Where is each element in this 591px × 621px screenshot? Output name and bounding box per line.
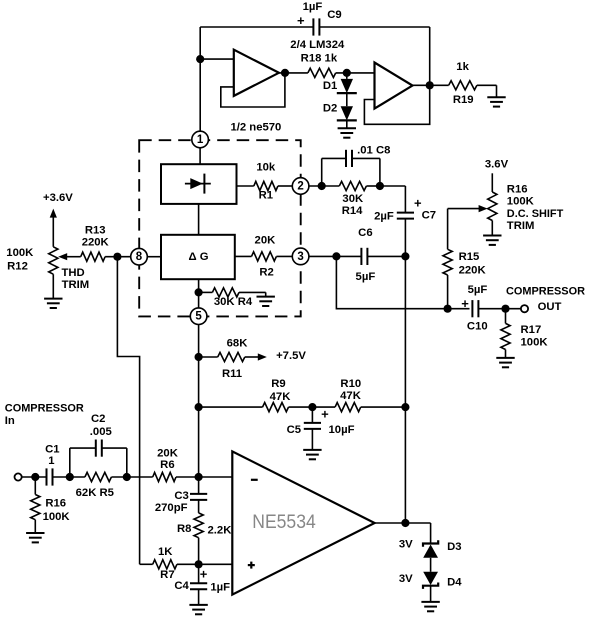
svg-text:8: 8: [136, 251, 143, 263]
wire: delta-G bottom to pin 5: [198, 279, 200, 308]
wire: R7 to plus node: [140, 563, 153, 565]
wire: wiper left to R15 riser: [448, 208, 480, 210]
svg-text:+: +: [297, 13, 305, 28]
svg-text:1k: 1k: [456, 61, 469, 73]
svg-text:C1: C1: [45, 444, 59, 456]
svg-text:100K: 100K: [43, 511, 71, 523]
svg-text:C4: C4: [174, 580, 189, 592]
wire: C8 loop left riser: [321, 158, 323, 186]
junction: U1a output node: [281, 69, 289, 77]
wire: output node to R17: [505, 309, 507, 324]
wire: C6 to main vertical bus: [367, 255, 405, 257]
wire: R4 to ground: [239, 291, 266, 293]
svg-text:1µF: 1µF: [303, 1, 323, 13]
capacitor C8 .01: [345, 150, 347, 167]
svg-text:C7: C7: [422, 209, 436, 221]
junction: R11 node: [195, 353, 203, 361]
wire: pin 3 to C6: [309, 255, 362, 257]
wire: C1 to R5: [53, 476, 85, 478]
op-amp U1b (1/4 LM324): [375, 63, 413, 109]
junction: R15 output node: [444, 305, 452, 313]
svg-text:D4: D4: [447, 577, 462, 589]
svg-text:2.2K: 2.2K: [208, 525, 233, 537]
ground at input R16: [26, 532, 44, 534]
wire: top rail left of C9: [200, 26, 314, 28]
wiper arrow of R12: [58, 253, 67, 260]
wire: link rectifier box to delta-G box: [198, 204, 200, 235]
svg-text:+: +: [461, 296, 469, 311]
svg-text:R18 1k: R18 1k: [301, 52, 338, 64]
wire: R13 to pin 8: [105, 256, 131, 258]
wire: node down to D1: [346, 73, 348, 79]
wire: main vertical bus C6 node down to NE5534 output: [404, 256, 406, 523]
terminal: COMPRESSOR In: [15, 473, 22, 480]
wire: C10 to output terminal: [478, 308, 521, 310]
potentiometer R12 100K body: [49, 247, 58, 274]
wire: C8 loop top right: [352, 157, 380, 159]
junction: C6 right / bus node: [401, 252, 409, 260]
wire: U1a non-inverting input from pin1 node: [200, 58, 234, 60]
wire: C2 loop top right: [102, 447, 127, 449]
junction: output bus node: [401, 519, 409, 527]
junction: input shunt node: [31, 473, 39, 481]
pin 3: [292, 248, 309, 265]
svg-text:20K: 20K: [255, 235, 277, 247]
svg-text:C3: C3: [174, 490, 188, 502]
svg-text:2: 2: [297, 181, 303, 193]
wire: R14 to corner node: [366, 185, 380, 187]
svg-text:R8: R8: [177, 523, 191, 535]
wire: top rail drop to U1b output: [429, 27, 431, 85]
wire: output corner down to D3: [430, 523, 432, 544]
svg-text:R12: R12: [7, 261, 28, 273]
svg-text:OUT: OUT: [538, 301, 562, 313]
svg-text:COMPRESSOR: COMPRESSOR: [506, 285, 585, 297]
svg-text:R9: R9: [271, 378, 285, 390]
svg-text:5µF: 5µF: [468, 284, 488, 296]
svg-text:+: +: [414, 196, 422, 211]
wire: input terminal to C1: [22, 476, 47, 478]
wire: R1 to pin 2: [278, 185, 292, 187]
wire: D4 to ground: [430, 586, 432, 602]
wire: R12 bottom to ground: [52, 274, 54, 298]
svg-text:3.6V: 3.6V: [485, 158, 509, 170]
svg-text:100K: 100K: [6, 247, 34, 259]
svg-text:5µF: 5µF: [356, 271, 376, 283]
wire: R9 to C5 node: [289, 406, 336, 408]
rectifier box of NE570: [161, 164, 237, 204]
wire: input node down to R16: [34, 477, 36, 495]
wire: R11 to +7.5V arrow: [245, 356, 259, 358]
ground at R17: [496, 357, 514, 359]
wire: node to R11: [199, 356, 218, 358]
ground at R16 pot: [483, 235, 501, 237]
junction: C2 left node: [66, 473, 74, 481]
ground at C5: [303, 449, 321, 451]
zener diode D4 3V: [423, 572, 438, 585]
svg-text:C5: C5: [287, 424, 301, 436]
wire: C2 loop left riser: [69, 448, 71, 477]
svg-text:68K: 68K: [227, 337, 249, 349]
svg-text:+7.5V: +7.5V: [276, 350, 306, 362]
junction: pin2 net left node: [318, 182, 326, 190]
wiper arrow of R16 pot: [479, 205, 488, 212]
junction: THD trim node: [113, 253, 121, 261]
resistor R8 2.2K: [194, 513, 203, 538]
resistor R13 220K: [81, 252, 105, 261]
svg-text:1: 1: [197, 134, 204, 146]
svg-text:R6: R6: [160, 459, 174, 471]
wire: pin1 stub into rectifier box: [199, 148, 201, 164]
capacitor C7 2uF: [397, 212, 414, 214]
svg-text:R19: R19: [453, 94, 474, 106]
ground below D2: [338, 127, 356, 129]
pin 1: [192, 131, 209, 148]
resistor R19 1k: [449, 81, 477, 90]
svg-text:3V: 3V: [399, 573, 413, 585]
svg-text:R1: R1: [259, 189, 273, 201]
svg-text:47K: 47K: [270, 391, 292, 403]
pin 8: [131, 248, 148, 265]
wire: R16 to ground: [34, 520, 36, 533]
wire: pin1 vertical up to top feedback rail: [199, 27, 201, 131]
label plus input sign: [248, 564, 255, 566]
svg-text:NE5534: NE5534: [252, 511, 316, 533]
junction: C2 right node: [123, 473, 131, 481]
resistor R9 47K: [263, 403, 289, 412]
wire: D3 to D4: [430, 558, 432, 572]
capacitor C3 270pF: [190, 493, 207, 495]
wire: delta-G box to R2: [235, 255, 252, 257]
svg-text:D3: D3: [447, 541, 461, 553]
pin 5: [190, 308, 207, 325]
wire: U1b feedback loop output to inverting input: [364, 85, 429, 124]
resistor R5 62K: [85, 472, 112, 481]
arrow: +7.5V: [258, 353, 267, 360]
wire: C3 to R8: [198, 500, 200, 513]
rectifier diode symbol inside box: [185, 183, 211, 185]
wire: node to R9: [199, 406, 263, 408]
svg-text:62K R5: 62K R5: [76, 487, 114, 499]
wire: C5 to ground: [311, 429, 313, 450]
wire: pin 8 to delta-G box: [147, 256, 161, 258]
svg-text:R15: R15: [459, 251, 480, 263]
resistor R1 10k: [254, 181, 278, 190]
junction: R4 node: [195, 288, 203, 296]
svg-text:2/4 LM324: 2/4 LM324: [290, 39, 345, 51]
resistor R6 20K: [153, 472, 176, 481]
resistor R2 20K: [252, 252, 277, 261]
junction: diode clamp node: [343, 69, 351, 77]
terminal: COMPRESSOR OUT: [521, 305, 528, 312]
delta G variable gain box of NE570: [161, 235, 235, 279]
wire: 3.6V to R16 pot: [491, 173, 493, 192]
wire: NE5534 output: [375, 522, 431, 524]
zener diode D3 3V: [423, 540, 438, 546]
wire: R2 to pin 3: [276, 255, 292, 257]
junction: C5 node: [308, 403, 316, 411]
wire: C5 node down to C5: [311, 407, 313, 423]
svg-text:100K: 100K: [521, 336, 549, 348]
wire: C2 loop top left: [70, 447, 96, 449]
resistor R4 30K: [212, 288, 239, 297]
wire: D1 cathode to D2 anode: [346, 93, 348, 106]
wire: corner down to C7: [404, 186, 406, 213]
resistor R15 220K: [443, 249, 452, 275]
diode D1: [341, 79, 353, 93]
junction: op-amp U1a input node: [196, 55, 204, 63]
junction: U1b output node: [426, 81, 434, 89]
wire: U1b output to R19: [413, 84, 449, 86]
wire: U1a output: [279, 72, 308, 74]
arrow: +3.6V supply arrowhead: [50, 209, 57, 218]
wire: top rail right of C9: [319, 26, 429, 28]
wire: THD node down with jog to R7 row: [117, 257, 139, 565]
capacitor C5 10uF: [304, 422, 321, 424]
svg-text:R10: R10: [340, 378, 361, 390]
svg-text:R2: R2: [259, 267, 273, 279]
svg-text:270pF: 270pF: [155, 502, 188, 514]
capacitor C6 5uF: [360, 248, 362, 265]
resistor R10 47K: [335, 403, 361, 412]
svg-text:TRIM: TRIM: [507, 220, 535, 232]
pin 2: [292, 178, 309, 195]
wire: C6 node down to output row: [336, 256, 469, 308]
wire: C2 loop right riser: [126, 448, 128, 477]
resistor R7 1K: [153, 560, 177, 569]
capacitor C2 .005: [95, 440, 97, 457]
wire: C8 loop top left: [322, 157, 346, 159]
svg-text:47K: 47K: [340, 390, 362, 402]
wire: R8 to plus node: [198, 538, 200, 565]
svg-text:10k: 10k: [256, 162, 276, 174]
svg-text:1: 1: [48, 455, 54, 467]
wire: R15 to output line: [447, 275, 449, 309]
svg-text:2µF: 2µF: [374, 210, 394, 222]
capacitor C9 1uF: [312, 18, 314, 35]
capacitor C4 1uF: [190, 582, 207, 584]
ground at R4: [257, 296, 275, 298]
svg-text:1µF: 1µF: [210, 581, 230, 593]
svg-text:3V: 3V: [399, 538, 413, 550]
svg-text:3: 3: [297, 251, 303, 263]
capacitor C10 5uF: [471, 300, 473, 317]
wire: minus node down to C3: [198, 477, 200, 494]
op-amp U1a (1/4 LM324) buffer: [234, 50, 279, 96]
junction: minus input node: [195, 473, 203, 481]
dashed outline 1/2 NE570: [139, 140, 301, 316]
svg-text:R16: R16: [507, 184, 528, 196]
svg-text:.005: .005: [90, 426, 112, 438]
wire: R16 pot to ground: [491, 221, 493, 236]
wire: R18 to U1b input: [336, 72, 375, 74]
junction: pin2 net right node: [376, 182, 384, 190]
capacitor C1 1: [46, 468, 48, 485]
svg-text:D.C. SHIFT: D.C. SHIFT: [507, 208, 564, 220]
svg-text:R13: R13: [85, 224, 106, 236]
svg-text:C2: C2: [91, 413, 105, 425]
wire: rectifier box to R1: [237, 185, 254, 187]
svg-text:1K: 1K: [158, 546, 173, 558]
junction: R10 bus node: [401, 403, 409, 411]
junction: pin3 net node: [332, 252, 340, 260]
svg-text:R14: R14: [342, 205, 363, 217]
svg-text:1/2 ne570: 1/2 ne570: [230, 122, 281, 134]
wire: wiper to R13: [66, 256, 81, 258]
svg-text:10µF: 10µF: [329, 424, 355, 436]
ground at D4: [421, 601, 439, 603]
diode D2: [341, 106, 353, 120]
svg-text:TRIM: TRIM: [62, 279, 90, 291]
svg-text:COMPRESSOR: COMPRESSOR: [5, 403, 84, 415]
wire: pin 2 to R14: [309, 185, 339, 187]
wire: R5 to R6: [111, 476, 152, 478]
junction: plus input node: [195, 560, 203, 568]
svg-text:C9: C9: [327, 9, 341, 21]
svg-text:+: +: [200, 567, 208, 582]
wire: R12 top to +3.6V: [52, 216, 54, 247]
resistor R14 30K: [339, 181, 366, 190]
svg-text:Δ G: Δ G: [188, 251, 208, 263]
wire: R17 to ground: [505, 350, 507, 358]
wire: R10 to main bus: [361, 406, 406, 408]
svg-text:R17: R17: [521, 324, 542, 336]
resistor R18 1k: [308, 68, 336, 77]
wire: plus node down to C4: [198, 564, 200, 583]
svg-text:5: 5: [195, 311, 202, 323]
wire: C7 down to C6 node: [404, 218, 406, 256]
ground at R12: [44, 298, 62, 300]
wire: U1a feedback loop output to inverting input: [221, 73, 285, 107]
svg-text:+: +: [321, 406, 329, 421]
svg-text:D1: D1: [323, 80, 337, 92]
resistor R17 100K: [501, 323, 510, 349]
wire: node to R4: [199, 291, 213, 293]
ground at R19: [487, 96, 505, 98]
svg-text:R16: R16: [45, 497, 66, 509]
potentiometer R16 100K body: [488, 192, 497, 221]
junction: R9 node: [195, 403, 203, 411]
ground at C4: [189, 604, 207, 606]
wire: C4 to ground: [198, 589, 200, 605]
svg-text:30K: 30K: [342, 193, 364, 205]
wire: R6 to minus-input node: [176, 476, 232, 478]
wire: pin2 net to C7 corner: [380, 185, 406, 187]
wire: C8 loop right riser: [379, 158, 381, 186]
svg-text:100K: 100K: [507, 196, 535, 208]
svg-text:220K: 220K: [459, 264, 487, 276]
svg-text:+3.6V: +3.6V: [43, 192, 73, 204]
svg-text:20K: 20K: [157, 447, 179, 459]
svg-text:30K R4: 30K R4: [214, 296, 253, 308]
label minus input sign: [251, 479, 258, 481]
svg-text:In: In: [5, 415, 15, 427]
wire: D2 cathode to ground: [346, 120, 348, 128]
svg-text:R7: R7: [160, 569, 174, 581]
svg-text:220K: 220K: [82, 236, 110, 248]
svg-text:C6: C6: [358, 227, 372, 239]
svg-text:D2: D2: [323, 103, 337, 115]
op-amp NE5534: [232, 451, 374, 594]
resistor R11 68K: [218, 352, 245, 361]
resistor R16 100K (input): [31, 495, 40, 520]
wire: pin 5 down to minus-input node: [198, 325, 200, 478]
wire: riser down to R15: [447, 209, 449, 250]
svg-text:THD: THD: [61, 267, 84, 279]
junction: output node: [501, 305, 509, 313]
wire: R7 to triangle plus input: [177, 563, 232, 565]
svg-text:R11: R11: [222, 368, 242, 380]
svg-text:C10: C10: [467, 321, 488, 333]
wire: R19 to ground: [477, 84, 497, 86]
svg-text:.01 C8: .01 C8: [357, 145, 390, 157]
